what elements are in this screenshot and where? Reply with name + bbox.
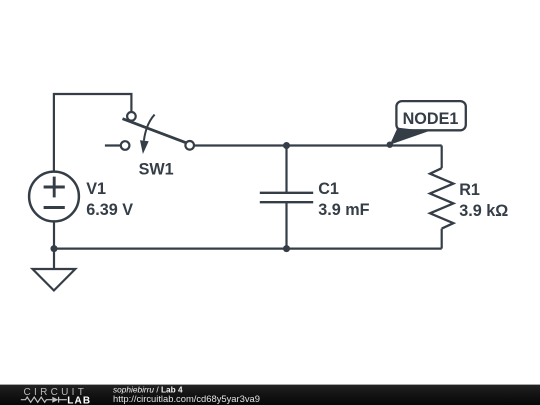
- node NODE1 callout balloon: [390, 101, 466, 145]
- footer bar: [0, 385, 540, 405]
- C1 bottom lead: [285, 202, 287, 248]
- svg-text:SW1: SW1: [139, 161, 174, 179]
- svg-text:6.39 V: 6.39 V: [86, 201, 133, 219]
- svg-text:R1: R1: [459, 181, 480, 199]
- SW1 actuation curved arrow: [144, 115, 155, 141]
- svg-text:V1: V1: [86, 180, 106, 198]
- SW1 right terminal circle: [185, 141, 194, 150]
- switch SW1: [121, 112, 194, 154]
- C1 top plate: [260, 192, 313, 194]
- C1 bottom plate: [260, 201, 313, 203]
- C1 top lead: [285, 146, 287, 193]
- svg-text:LAB: LAB: [67, 396, 91, 405]
- wire stub left of switch lower throw: [105, 144, 121, 146]
- wire top-left loop from V1 top to switch top terminal: [54, 94, 131, 171]
- capacitor C1: [260, 146, 313, 249]
- ground: [33, 269, 76, 291]
- voltage source V1: [29, 172, 79, 222]
- wire bottom rail: [54, 248, 442, 250]
- resistor R1: [430, 168, 453, 228]
- footer logo resistor-diode wire: [21, 397, 67, 403]
- svg-text:C1: C1: [318, 180, 339, 198]
- svg-text:3.9 mF: 3.9 mF: [318, 201, 369, 219]
- svg-text:NODE1: NODE1: [403, 110, 459, 128]
- SW1 blade: [123, 119, 186, 143]
- svg-text:3.9 kΩ: 3.9 kΩ: [459, 202, 508, 220]
- wire top rail from switch right terminal to top-right corner: [194, 144, 442, 146]
- footer logo diode triangle: [52, 397, 58, 403]
- junction dot at C1 bottom: [283, 245, 290, 252]
- svg-text:http://circuitlab.com/cd68y5ya: http://circuitlab.com/cd68y5yar3va9: [113, 393, 260, 404]
- wire right branch top lead into R1: [441, 146, 443, 169]
- wire V1 bottom to ground: [53, 222, 55, 269]
- junction dot at V1 bottom rail: [51, 245, 58, 252]
- SW1 lower-left terminal circle: [121, 141, 130, 150]
- SW1 top terminal circle: [127, 112, 136, 121]
- wire right branch bottom lead from R1: [441, 229, 443, 249]
- node NODE1 marker dot: [387, 142, 393, 148]
- junction dot at C1 top: [283, 142, 290, 149]
